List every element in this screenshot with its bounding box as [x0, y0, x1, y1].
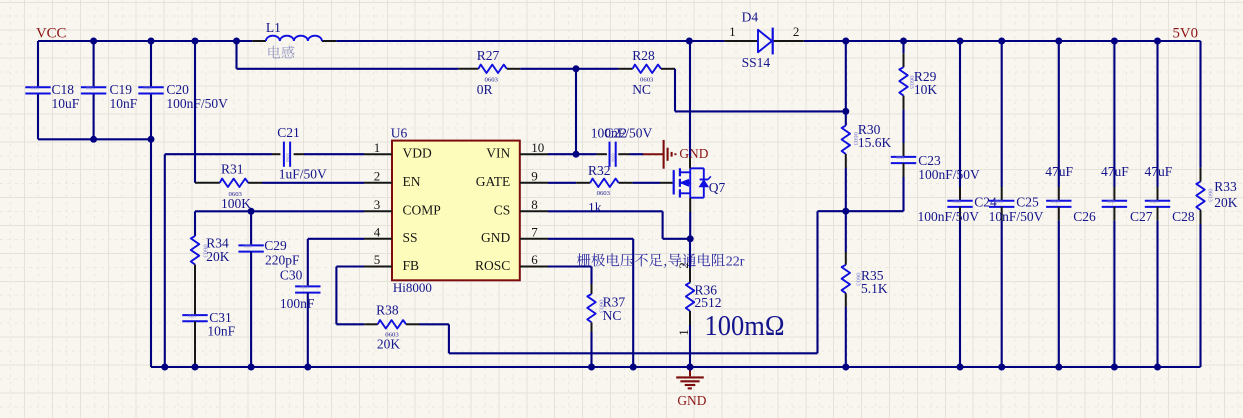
- svg-text:47uF: 47uF: [1145, 164, 1173, 179]
- wire output node R30 upper divider: [845, 41, 847, 111]
- wire GATE row to R32: [548, 182, 576, 184]
- power ground at C22: [643, 153, 663, 155]
- svg-text:10K: 10K: [914, 82, 938, 97]
- svg-text:C31: C31: [209, 310, 232, 325]
- svg-text:8: 8: [531, 197, 538, 212]
- svg-text:10uF: 10uF: [52, 96, 80, 111]
- node junctions ground rail: [161, 364, 168, 371]
- svg-text:R38: R38: [376, 303, 399, 318]
- wire R36 to ground rail: [689, 325, 691, 367]
- capacitor C18: [25, 86, 50, 88]
- svg-text:FB: FB: [403, 258, 420, 273]
- svg-text:GND: GND: [679, 146, 708, 161]
- svg-text:R31: R31: [221, 162, 244, 177]
- node junction feedback: [842, 208, 849, 215]
- transistor Q7 NMOS: [673, 170, 675, 194]
- resistor R36 current sense: [689, 268, 691, 283]
- capacitor C29: [238, 244, 263, 246]
- svg-text:NC: NC: [632, 82, 651, 97]
- svg-text:0603: 0603: [144, 86, 152, 91]
- svg-text:0805: 0805: [896, 155, 904, 160]
- node junctions top rail: [90, 38, 97, 45]
- svg-text:0805: 0805: [953, 199, 961, 204]
- pin 5 FB U6: [364, 266, 392, 268]
- wire Q7 drain to top rail: [689, 41, 691, 157]
- svg-text:20K: 20K: [377, 337, 401, 352]
- wire R29 to C23: [902, 110, 904, 143]
- svg-text:SS: SS: [403, 230, 418, 245]
- pin 2 EN U6: [364, 182, 392, 184]
- capacitor C30: [295, 285, 320, 287]
- svg-text:100nF/50V: 100nF/50V: [918, 167, 980, 182]
- wire C19 branch vertical: [93, 41, 95, 87]
- capacitor C24: [959, 41, 961, 187]
- node junction R28 bypass: [842, 108, 849, 115]
- svg-text:2: 2: [793, 24, 800, 39]
- svg-text:D4: D4: [742, 9, 759, 24]
- svg-text:7: 7: [531, 224, 538, 239]
- svg-text:C23: C23: [918, 153, 941, 168]
- svg-text:Q7: Q7: [709, 180, 726, 195]
- wire R27 feed drop from rail: [235, 41, 237, 69]
- svg-text:EN: EN: [403, 174, 421, 189]
- capacitor C27: [1113, 41, 1115, 187]
- wire Q7 source down: [689, 198, 691, 212]
- svg-text:COMP: COMP: [403, 203, 441, 218]
- wire ROSC row to R37: [548, 265, 592, 267]
- svg-text:20K: 20K: [1214, 195, 1238, 210]
- svg-text:3: 3: [374, 197, 381, 212]
- capacitor C22: [597, 153, 607, 155]
- wire R35 to ground rail: [845, 307, 847, 367]
- svg-text:0603: 0603: [31, 86, 39, 91]
- svg-text:R33: R33: [1214, 179, 1237, 194]
- svg-text:100nF: 100nF: [280, 296, 315, 311]
- capacitor C25: [1001, 41, 1003, 187]
- pin 8 CS U6: [520, 210, 548, 212]
- inductor L1: [252, 40, 266, 42]
- capacitor C23: [903, 143, 905, 157]
- svg-text:CS: CS: [494, 203, 511, 218]
- svg-text:2: 2: [374, 168, 381, 183]
- wire VIN row: [548, 153, 576, 155]
- svg-text:100mΩ: 100mΩ: [705, 310, 785, 342]
- wire GND pin row: [548, 238, 633, 240]
- svg-text:C26: C26: [1073, 209, 1096, 224]
- wire R38 to feedback node: [420, 323, 449, 325]
- svg-text:C18: C18: [52, 82, 75, 97]
- resistor R35 lower divider: [845, 211, 847, 252]
- wire C20 rail drop to ground rail: [150, 139, 152, 367]
- svg-text:0603: 0603: [188, 313, 196, 318]
- svg-text:L1: L1: [266, 20, 281, 35]
- svg-text:1: 1: [676, 329, 691, 336]
- resistor R33 output load: [1199, 41, 1201, 168]
- node junction Q7 source CS: [687, 235, 694, 242]
- wire VDD row: [165, 153, 272, 155]
- capacitor C19: [81, 86, 106, 88]
- svg-text:Hi8000: Hi8000: [393, 280, 432, 295]
- svg-text:1: 1: [374, 140, 381, 155]
- wire R32 to Q7 gate: [633, 182, 660, 184]
- svg-text:R28: R28: [632, 48, 655, 63]
- svg-text:20K: 20K: [206, 249, 230, 264]
- svg-text:R32: R32: [588, 163, 611, 178]
- svg-text:0R: 0R: [477, 82, 493, 97]
- op-amp U6 Hi8000 body: [392, 141, 520, 281]
- wire top rail D4 to 5V0: [804, 40, 1201, 42]
- pin 1 VDD U6: [364, 153, 392, 155]
- svg-text:5: 5: [374, 252, 381, 267]
- svg-text:10nF/50V: 10nF/50V: [989, 209, 1044, 224]
- wire R34 compensation branch: [194, 211, 196, 236]
- pin 10 VIN U6: [520, 153, 548, 155]
- svg-text:U6: U6: [391, 126, 408, 141]
- svg-text:47uF: 47uF: [1045, 164, 1073, 179]
- svg-text:C27: C27: [1130, 209, 1153, 224]
- wire C20 branch vertical: [150, 41, 152, 87]
- svg-text:47uF: 47uF: [1101, 164, 1129, 179]
- resistor R31: [195, 182, 220, 184]
- wire R28 bypass to output node: [674, 69, 676, 112]
- svg-text:C22: C22: [605, 125, 628, 140]
- svg-text:VCC: VCC: [36, 26, 67, 42]
- svg-text:GATE: GATE: [476, 174, 511, 189]
- wire R30 to feedback node: [845, 168, 847, 211]
- svg-text:5.1K: 5.1K: [861, 281, 888, 296]
- svg-text:C29: C29: [264, 238, 287, 253]
- wire R31 to EN pin: [262, 182, 364, 184]
- svg-text:0603: 0603: [86, 86, 94, 91]
- svg-text:C30: C30: [280, 267, 303, 282]
- resistor R27: [458, 68, 478, 70]
- svg-text:2512: 2512: [695, 295, 722, 310]
- svg-text:0805: 0805: [1107, 199, 1115, 204]
- resistor R38: [364, 323, 377, 325]
- svg-text:5V0: 5V0: [1173, 25, 1198, 41]
- pin 6 ROSC U6: [520, 266, 548, 268]
- svg-text:C28: C28: [1172, 209, 1195, 224]
- svg-text:0805: 0805: [300, 285, 308, 290]
- diode D4: [724, 40, 758, 42]
- wire decoupling bottom rail: [38, 138, 151, 140]
- svg-text:10: 10: [531, 140, 544, 155]
- svg-text:0603: 0603: [611, 153, 616, 161]
- svg-text:VDD: VDD: [403, 146, 432, 161]
- capacitor C21: [283, 142, 285, 167]
- wire SS row to C30: [308, 238, 364, 240]
- svg-text:220pF: 220pF: [265, 252, 300, 267]
- wire C21 drop to ground rail: [164, 154, 166, 367]
- label gate note chinese: [577, 253, 725, 268]
- svg-text:6: 6: [531, 252, 538, 267]
- svg-text:0603: 0603: [597, 190, 611, 197]
- wire top rail L1 to D4: [336, 40, 724, 42]
- svg-text:C21: C21: [277, 125, 300, 140]
- pin 4 SS U6: [364, 238, 392, 240]
- svg-text:9: 9: [531, 168, 538, 183]
- wire ground rail: [151, 366, 1201, 368]
- pin 9 GATE U6: [520, 182, 548, 184]
- svg-text:0805: 0805: [994, 199, 1002, 204]
- svg-text:1uF/50V: 1uF/50V: [279, 166, 327, 181]
- resistor R28: [619, 68, 633, 70]
- svg-text:C19: C19: [110, 82, 133, 97]
- svg-text:C25: C25: [1016, 194, 1039, 209]
- svg-text:100nF/50V: 100nF/50V: [918, 209, 980, 224]
- wire C29 branch: [250, 211, 252, 245]
- wire R29 C23 feedforward branch: [902, 41, 904, 53]
- svg-text:100K: 100K: [221, 196, 251, 211]
- svg-text:0805: 0805: [244, 244, 252, 249]
- svg-text:10nF: 10nF: [110, 96, 138, 111]
- pin 7 GND U6: [520, 238, 548, 240]
- node junction COMP C29: [248, 208, 255, 215]
- svg-text:NC: NC: [603, 308, 622, 323]
- svg-text:GND: GND: [481, 230, 510, 245]
- resistor R34: [191, 236, 199, 264]
- capacitor C28: [1156, 41, 1158, 187]
- wire R36 sense branch: [689, 239, 691, 268]
- capacitor C31: [182, 314, 207, 316]
- wire COMP row: [195, 210, 364, 212]
- pin 3 COMP U6: [364, 210, 392, 212]
- wire R37 to ground rail: [590, 332, 592, 367]
- wire VIN drop from R27: [575, 69, 577, 154]
- svg-text:1k: 1k: [588, 200, 602, 215]
- svg-text:2: 2: [676, 262, 691, 269]
- svg-text:C20: C20: [166, 82, 189, 97]
- svg-text:100nF/50V: 100nF/50V: [166, 96, 228, 111]
- wire CS row to Q7 source: [548, 210, 663, 212]
- svg-text:10nF: 10nF: [207, 324, 235, 339]
- svg-text:15.6K: 15.6K: [858, 135, 892, 150]
- node junctions decoupling rail: [90, 136, 97, 143]
- wire C18 branch vertical: [37, 41, 39, 87]
- resistor R30: [845, 124, 847, 126]
- wire C23 to feedback node: [902, 177, 904, 211]
- resistor R29: [903, 53, 905, 67]
- wire R27 to R28: [520, 68, 618, 70]
- svg-text:VIN: VIN: [486, 146, 510, 161]
- svg-text:0603: 0603: [1206, 189, 1213, 203]
- svg-text:4: 4: [374, 224, 381, 239]
- svg-text:0603: 0603: [285, 153, 290, 161]
- capacitor C20: [138, 86, 163, 88]
- svg-text:22r: 22r: [726, 254, 745, 269]
- wire feedback node to C23: [846, 210, 904, 212]
- capacitor C26: [1058, 41, 1060, 187]
- svg-text:0805: 0805: [1150, 199, 1158, 204]
- svg-text:GND: GND: [677, 393, 706, 408]
- node junction R27 VIN tap: [573, 65, 580, 72]
- svg-text:R27: R27: [477, 48, 500, 63]
- node junction VIN row: [573, 151, 580, 158]
- wire EN pull-up from top rail: [194, 41, 196, 183]
- label L1 comment dian-gan: [268, 46, 294, 59]
- ground symbol GND: [689, 367, 691, 376]
- wire FB row to R38: [336, 265, 364, 267]
- svg-text:1: 1: [729, 24, 736, 39]
- resistor R32: [576, 182, 590, 184]
- svg-text:0805: 0805: [1051, 199, 1059, 204]
- svg-text:ROSC: ROSC: [475, 258, 510, 273]
- wire VCC top rail left segment: [38, 40, 252, 42]
- resistor R37: [591, 284, 593, 294]
- svg-text:SS14: SS14: [742, 55, 771, 70]
